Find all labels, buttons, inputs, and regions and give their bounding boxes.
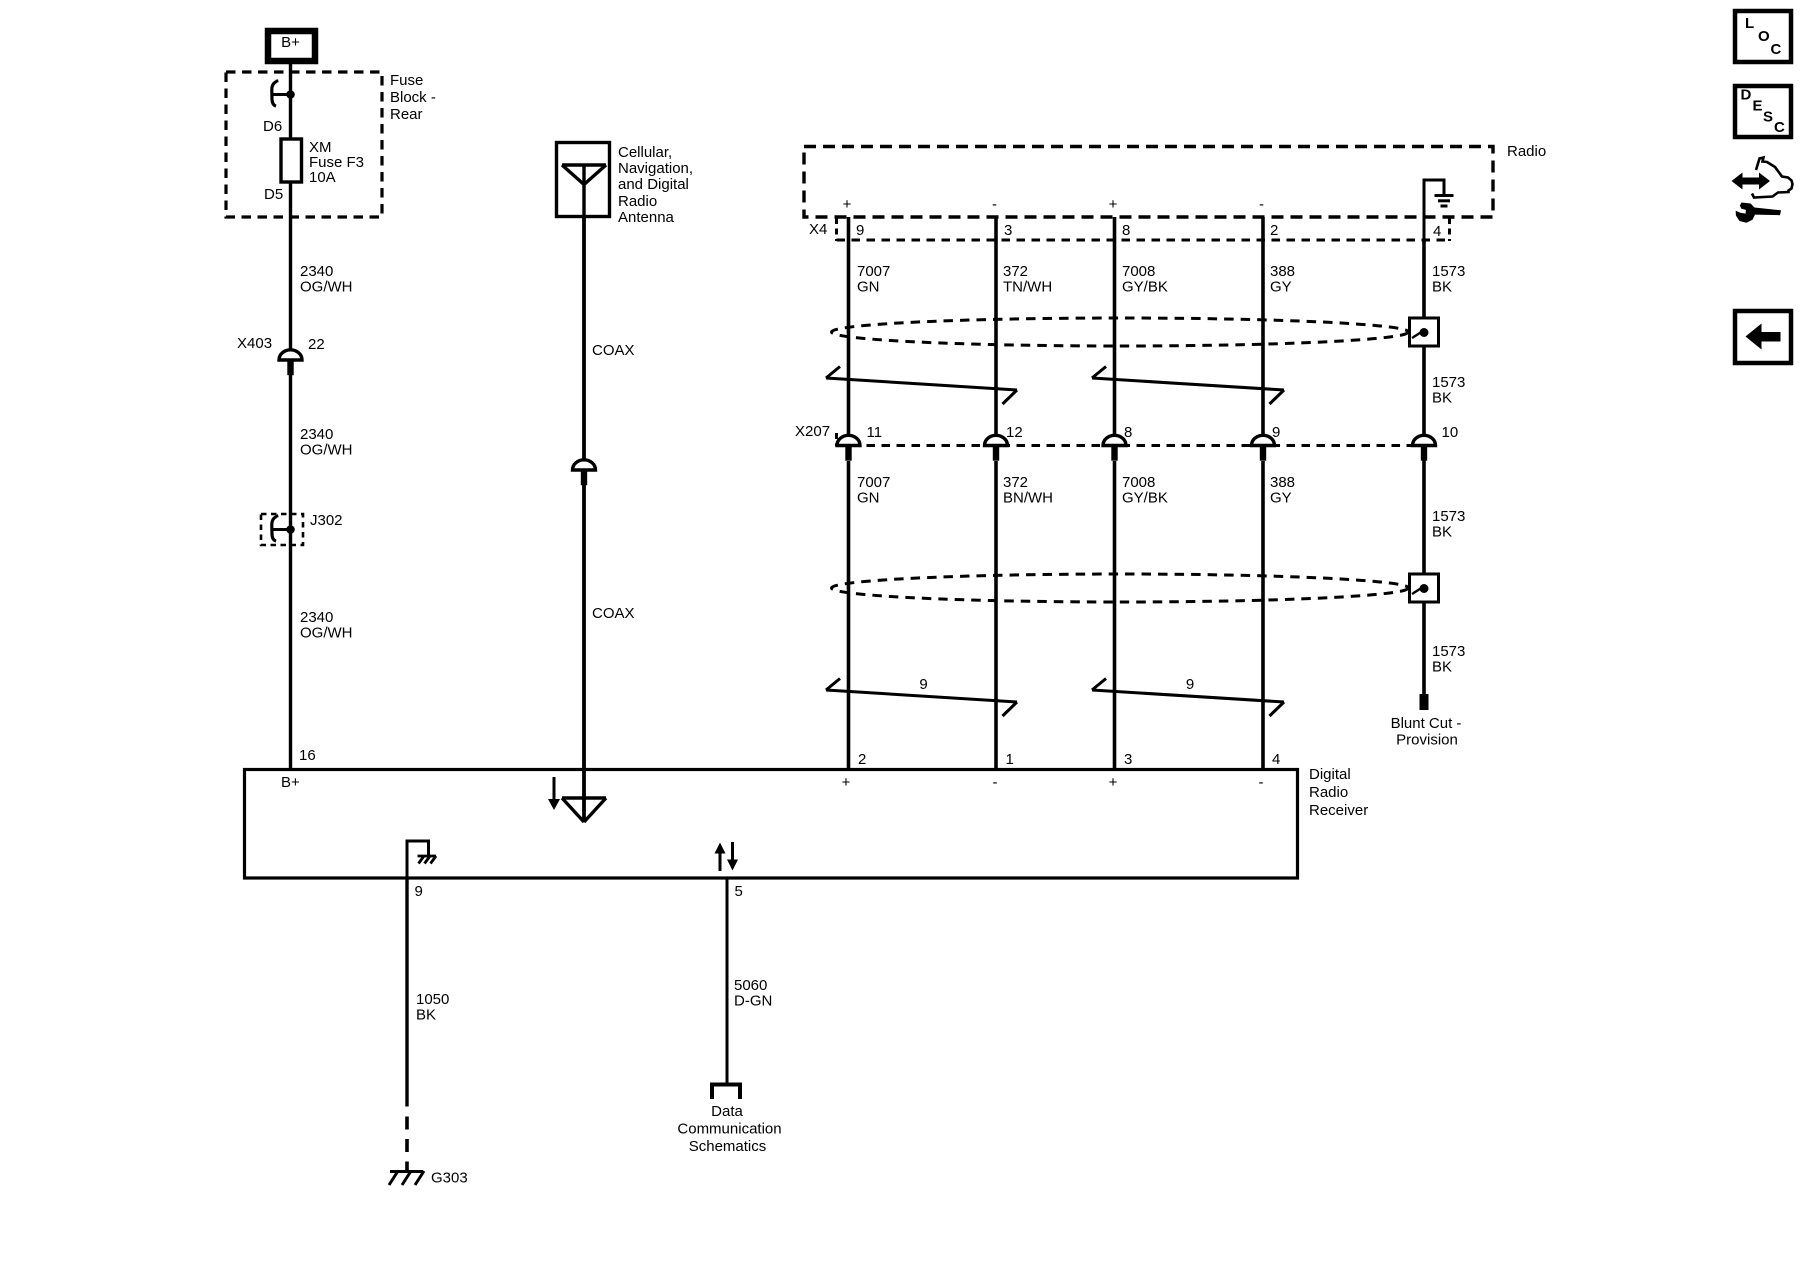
svg-text:1: 1 xyxy=(1006,751,1014,768)
B+ power symbol xyxy=(268,31,315,61)
svg-text:Cellular,: Cellular, xyxy=(618,144,672,161)
svg-text:BK: BK xyxy=(1432,659,1452,676)
svg-text:8: 8 xyxy=(1122,222,1130,239)
svg-text:B+: B+ xyxy=(281,34,300,51)
svg-text:2340: 2340 xyxy=(300,263,333,280)
svg-text:BK: BK xyxy=(1432,390,1452,407)
svg-text:2340: 2340 xyxy=(300,609,333,626)
svg-text:GY: GY xyxy=(1270,490,1292,507)
inline coax connector xyxy=(573,460,596,470)
wire 372 TN/WH radio to X207 xyxy=(994,217,998,436)
wire 5060 D-GN xyxy=(726,879,729,1084)
svg-text:10: 10 xyxy=(1442,424,1459,441)
svg-text:GN: GN xyxy=(857,490,880,507)
receiver antenna input symbol xyxy=(553,777,556,801)
svg-text:G303: G303 xyxy=(431,1170,468,1187)
off-page connector to data schematics xyxy=(712,1085,740,1100)
radio dashed box xyxy=(804,147,1493,218)
shield drain box 1 xyxy=(1410,318,1439,346)
svg-text:+: + xyxy=(1109,196,1118,213)
svg-text:1573: 1573 xyxy=(1432,263,1465,280)
svg-text:+: + xyxy=(843,196,852,213)
svg-text:372: 372 xyxy=(1003,474,1028,491)
svg-text:Fuse: Fuse xyxy=(390,72,423,89)
svg-text:GY/BK: GY/BK xyxy=(1122,279,1168,296)
twisted pair crossover row2 left xyxy=(826,690,1017,702)
wire B+ to fuse block xyxy=(289,64,292,351)
wire 388 GY X207 to receiver xyxy=(1261,461,1265,768)
svg-text:TN/WH: TN/WH xyxy=(1003,279,1052,296)
svg-text:GY: GY xyxy=(1270,279,1292,296)
svg-text:Navigation,: Navigation, xyxy=(618,160,693,177)
svg-text:8: 8 xyxy=(1124,424,1132,441)
dashed wire to G303 xyxy=(405,1117,409,1172)
svg-text:D5: D5 xyxy=(264,186,283,203)
twisted/shield ellipse 1 xyxy=(832,318,1409,346)
svg-text:X207: X207 xyxy=(795,423,830,440)
connector X207 pin 10 xyxy=(1413,435,1436,445)
svg-text:9: 9 xyxy=(1186,676,1194,693)
svg-text:GY/BK: GY/BK xyxy=(1122,490,1168,507)
svg-text:Block -: Block - xyxy=(390,89,436,106)
svg-text:7008: 7008 xyxy=(1122,474,1155,491)
twisted/shield ellipse 2 xyxy=(832,574,1409,602)
svg-text:OG/WH: OG/WH xyxy=(300,279,353,296)
receiver internal ground symbol xyxy=(407,841,429,879)
svg-text:16: 16 xyxy=(299,747,316,764)
svg-text:BK: BK xyxy=(1432,279,1452,296)
svg-text:7008: 7008 xyxy=(1122,263,1155,280)
svg-text:Digital: Digital xyxy=(1309,766,1351,783)
svg-text:OG/WH: OG/WH xyxy=(300,625,353,642)
svg-text:2: 2 xyxy=(1270,222,1278,239)
svg-text:1573: 1573 xyxy=(1432,374,1465,391)
svg-text:2: 2 xyxy=(858,751,866,768)
svg-text:-: - xyxy=(1259,196,1264,213)
back arrow icon box xyxy=(1735,311,1791,363)
car with arrow icon xyxy=(1752,158,1793,198)
svg-text:372: 372 xyxy=(1003,263,1028,280)
fuse XM F3 10A xyxy=(281,139,302,182)
svg-text:-: - xyxy=(1259,774,1264,791)
cellular/navigation/digital radio antenna xyxy=(557,143,610,217)
svg-text:4: 4 xyxy=(1272,751,1280,768)
twisted pair crossover row2 right xyxy=(1092,690,1284,702)
twisted pair crossover row1 right xyxy=(1092,378,1284,390)
svg-text:B+: B+ xyxy=(281,774,300,791)
svg-text:Blunt Cut -: Blunt Cut - xyxy=(1391,715,1462,732)
svg-text:BN/WH: BN/WH xyxy=(1003,490,1053,507)
blunt cut provision xyxy=(1420,694,1429,710)
svg-text:Provision: Provision xyxy=(1396,732,1458,749)
svg-text:5: 5 xyxy=(735,883,743,900)
svg-text:2340: 2340 xyxy=(300,426,333,443)
svg-text:1573: 1573 xyxy=(1432,508,1465,525)
connector X207 pin 12 xyxy=(985,435,1008,445)
svg-text:D-GN: D-GN xyxy=(734,993,772,1010)
svg-text:10A: 10A xyxy=(309,169,336,186)
svg-text:BK: BK xyxy=(416,1007,436,1024)
wire 388 GY radio to X207 xyxy=(1261,217,1265,436)
tap/splice inside fuse block xyxy=(272,82,277,107)
svg-text:-: - xyxy=(992,196,997,213)
ground symbol inside radio xyxy=(1424,180,1444,240)
svg-text:Radio: Radio xyxy=(618,193,657,210)
svg-text:7007: 7007 xyxy=(857,474,890,491)
ground G303 xyxy=(390,1170,423,1173)
LOC icon box xyxy=(1735,11,1791,62)
svg-text:Radio: Radio xyxy=(1309,784,1348,801)
svg-text:+: + xyxy=(1109,774,1118,791)
svg-text:COAX: COAX xyxy=(592,605,635,622)
twisted pair crossover row1 left xyxy=(826,378,1017,390)
svg-text:+: + xyxy=(842,774,851,791)
svg-text:9: 9 xyxy=(1272,424,1280,441)
svg-text:11: 11 xyxy=(867,424,883,441)
svg-text:9: 9 xyxy=(856,222,864,239)
DESC icon box xyxy=(1735,86,1791,137)
wire 372 BN/WH X207 to receiver xyxy=(994,461,998,768)
svg-text:BK: BK xyxy=(1432,524,1452,541)
coax wire lower xyxy=(582,485,586,820)
receiver data in/out arrows xyxy=(719,851,722,871)
svg-text:C: C xyxy=(1774,119,1785,136)
svg-text:3: 3 xyxy=(1004,222,1012,239)
svg-text:9: 9 xyxy=(919,676,927,693)
svg-text:COAX: COAX xyxy=(592,342,635,359)
connector X207 pin 8 xyxy=(1103,435,1126,445)
svg-text:-: - xyxy=(993,774,998,791)
svg-text:5060: 5060 xyxy=(734,977,767,994)
wire 1050 BK xyxy=(405,879,408,1107)
svg-text:22: 22 xyxy=(308,336,325,353)
wire 1573 BK radio ground to blunt cut xyxy=(1422,240,1426,694)
wrench icon xyxy=(1736,203,1781,223)
svg-text:Radio: Radio xyxy=(1507,143,1546,160)
svg-text:L: L xyxy=(1745,15,1754,32)
wire 7007 GN X207 to receiver xyxy=(847,461,851,768)
shield drain box 2 xyxy=(1410,574,1439,602)
svg-text:D6: D6 xyxy=(263,118,282,135)
svg-text:Schematics: Schematics xyxy=(689,1138,767,1155)
svg-text:X4: X4 xyxy=(809,221,827,238)
svg-text:and Digital: and Digital xyxy=(618,176,689,193)
svg-text:OG/WH: OG/WH xyxy=(300,442,353,459)
svg-text:1050: 1050 xyxy=(416,991,449,1008)
fuse block - rear dashed box xyxy=(226,72,382,217)
svg-text:Receiver: Receiver xyxy=(1309,802,1368,819)
svg-text:S: S xyxy=(1763,109,1773,126)
svg-text:GN: GN xyxy=(857,279,880,296)
svg-text:Communication: Communication xyxy=(677,1121,781,1138)
wire 7008 GY/BK radio to X207 xyxy=(1113,217,1117,436)
svg-text:388: 388 xyxy=(1270,474,1295,491)
svg-text:9: 9 xyxy=(415,883,423,900)
connector X207 pin 11 xyxy=(837,435,860,445)
svg-text:388: 388 xyxy=(1270,263,1295,280)
svg-text:1573: 1573 xyxy=(1432,643,1465,660)
svg-text:E: E xyxy=(1753,98,1763,115)
wire 7007 GN radio to X207 xyxy=(847,217,851,436)
svg-text:4: 4 xyxy=(1433,223,1441,240)
svg-text:J302: J302 xyxy=(310,512,343,529)
connector X207 pin 9 xyxy=(1252,435,1275,445)
svg-text:O: O xyxy=(1758,28,1770,45)
splice J302 xyxy=(261,514,303,545)
svg-text:12: 12 xyxy=(1006,424,1023,441)
coax wire upper xyxy=(582,218,586,459)
svg-text:C: C xyxy=(1771,41,1782,58)
svg-text:Antenna: Antenna xyxy=(618,209,675,226)
svg-text:3: 3 xyxy=(1124,751,1132,768)
svg-text:Rear: Rear xyxy=(390,106,423,123)
digital radio receiver box xyxy=(245,770,1298,879)
svg-text:X403: X403 xyxy=(237,335,272,352)
svg-text:Data: Data xyxy=(711,1103,743,1120)
svg-text:D: D xyxy=(1741,87,1752,104)
wire 7008 GY/BK X207 to receiver xyxy=(1113,461,1117,768)
wire X403 to receiver xyxy=(289,375,292,768)
svg-text:7007: 7007 xyxy=(857,263,890,280)
